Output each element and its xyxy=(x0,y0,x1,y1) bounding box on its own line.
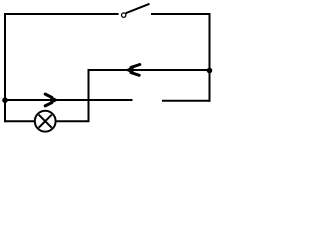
current arrow (pointing right) on lower branch xyxy=(45,94,59,106)
switch S1 pivot circle xyxy=(122,13,126,17)
wire: bottom-left horizontal (left rail to lamp) xyxy=(4,120,35,122)
node A (junction dot on left rail) xyxy=(2,97,8,103)
lamp L1 (circle with X) xyxy=(35,111,56,132)
wire: top-left horizontal (left rail to switch pivot) xyxy=(4,13,119,15)
wire: right vertical rail xyxy=(209,14,211,102)
node B (junction dot on right rail) xyxy=(207,68,213,74)
wire: bottom horizontal (lamp to middle riser) xyxy=(56,120,90,122)
switch S1 lever (open blade) xyxy=(126,4,150,13)
wire: bottom-right contact segment (open gap to the left) xyxy=(162,100,211,102)
wire: lower horizontal branch (node A to open gap) xyxy=(5,99,133,101)
wire: middle horizontal branch (riser to node B) xyxy=(88,69,210,71)
current arrow (pointing left) on middle branch xyxy=(125,65,140,76)
wire: top-right horizontal (switch contact to right rail) xyxy=(151,13,211,15)
wire: middle vertical riser xyxy=(88,70,90,121)
wire: left vertical rail xyxy=(4,14,6,122)
